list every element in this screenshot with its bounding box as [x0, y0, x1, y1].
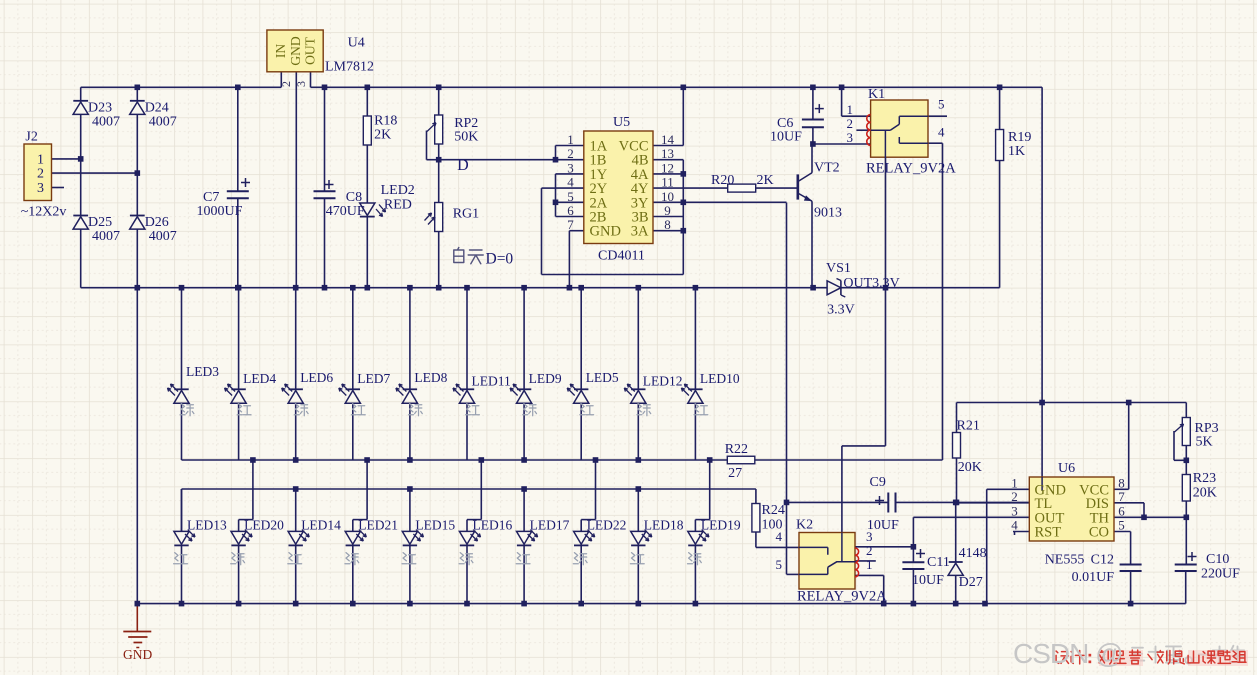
svg-text:LED3: LED3: [186, 364, 219, 379]
svg-text:C10: C10: [1206, 552, 1229, 567]
svg-text:LED17: LED17: [530, 518, 570, 533]
svg-text:CO: CO: [1089, 525, 1109, 541]
svg-text:RELAY_9V2A: RELAY_9V2A: [866, 161, 956, 177]
svg-text:GND: GND: [288, 36, 303, 65]
svg-text:9013: 9013: [814, 206, 842, 221]
svg-text:5: 5: [776, 557, 783, 572]
svg-text:CSDN @: CSDN @: [1013, 638, 1123, 669]
svg-text:50K: 50K: [454, 130, 478, 145]
svg-text:5K: 5K: [1196, 435, 1213, 450]
svg-text:R18: R18: [374, 114, 397, 129]
svg-text:D26: D26: [145, 215, 169, 230]
svg-text:7: 7: [1118, 489, 1125, 504]
svg-text:D: D: [457, 157, 469, 174]
svg-text:1: 1: [37, 152, 44, 167]
svg-text:LED11: LED11: [472, 374, 511, 389]
svg-text:LED18: LED18: [644, 518, 684, 533]
svg-text:LED21: LED21: [358, 518, 398, 533]
svg-text:RED: RED: [384, 197, 412, 212]
svg-text:12: 12: [661, 160, 674, 175]
svg-text:27: 27: [728, 466, 742, 481]
svg-text:LED19: LED19: [701, 518, 741, 533]
svg-text:LED8: LED8: [414, 370, 447, 385]
svg-text:K2: K2: [796, 518, 813, 533]
svg-text:10: 10: [661, 189, 674, 204]
svg-text:CD4011: CD4011: [598, 249, 645, 264]
svg-text:4007: 4007: [149, 114, 177, 129]
svg-text:2: 2: [1011, 489, 1018, 504]
svg-text:D24: D24: [145, 100, 169, 115]
svg-text:4: 4: [938, 125, 945, 140]
svg-text:3: 3: [1011, 503, 1018, 518]
svg-text:2K: 2K: [374, 128, 391, 143]
svg-text:4007: 4007: [92, 229, 120, 244]
svg-text:LED10: LED10: [700, 371, 740, 386]
svg-text:C12: C12: [1091, 553, 1114, 568]
svg-text:2: 2: [866, 543, 873, 558]
svg-text:GND: GND: [123, 647, 152, 662]
svg-text:4: 4: [1011, 518, 1018, 533]
svg-text:D25: D25: [88, 215, 112, 230]
svg-text:R24: R24: [762, 503, 785, 518]
svg-text:LED5: LED5: [586, 370, 619, 385]
svg-text:5: 5: [1118, 518, 1125, 533]
svg-text:LM7812: LM7812: [325, 60, 374, 75]
svg-text:RST: RST: [1035, 525, 1062, 541]
svg-text:9: 9: [664, 203, 671, 218]
svg-text:K1: K1: [868, 87, 885, 102]
svg-text:LED15: LED15: [415, 518, 455, 533]
svg-text:R20: R20: [711, 173, 734, 188]
svg-text:6: 6: [1118, 503, 1125, 518]
svg-text:0.01UF: 0.01UF: [1072, 570, 1115, 585]
svg-text:LED6: LED6: [300, 370, 333, 385]
svg-text:RELAY_9V2A: RELAY_9V2A: [797, 589, 887, 605]
svg-text:1: 1: [567, 132, 574, 147]
svg-text:1: 1: [866, 557, 873, 572]
svg-text:VS1: VS1: [826, 261, 851, 276]
svg-text:2K: 2K: [757, 173, 774, 188]
svg-text:11: 11: [661, 175, 674, 190]
svg-text:OUT3.3V: OUT3.3V: [843, 276, 899, 291]
svg-text:220UF: 220UF: [1201, 567, 1240, 582]
svg-text:2: 2: [567, 146, 574, 161]
svg-text:10UF: 10UF: [770, 130, 802, 145]
svg-text:NE555: NE555: [1045, 553, 1085, 568]
svg-text:LED12: LED12: [643, 374, 683, 389]
svg-text:4: 4: [567, 175, 574, 190]
svg-text:C9: C9: [870, 475, 886, 490]
svg-text:4007: 4007: [149, 229, 177, 244]
svg-text:1: 1: [847, 102, 854, 117]
svg-text:D27: D27: [959, 575, 983, 590]
svg-text:470UF: 470UF: [326, 204, 365, 219]
svg-text:LED4: LED4: [243, 371, 276, 386]
svg-text:20K: 20K: [1193, 486, 1217, 501]
svg-text:LED16: LED16: [473, 518, 513, 533]
svg-text:VT2: VT2: [814, 161, 840, 176]
svg-text:U5: U5: [613, 115, 630, 130]
svg-text:4007: 4007: [92, 114, 120, 129]
svg-text:U4: U4: [348, 36, 365, 51]
svg-text:6: 6: [567, 203, 574, 218]
svg-text:4: 4: [776, 529, 783, 544]
svg-text:8: 8: [664, 217, 671, 232]
svg-text:~12X2v: ~12X2v: [21, 205, 67, 220]
svg-text:10UF: 10UF: [912, 573, 944, 588]
svg-text:4148: 4148: [959, 546, 987, 561]
svg-text:3A: 3A: [631, 224, 649, 240]
svg-text:1K: 1K: [1008, 144, 1025, 159]
svg-text:14: 14: [661, 132, 675, 147]
svg-text:R23: R23: [1193, 471, 1216, 486]
svg-text:3: 3: [567, 160, 574, 175]
svg-text:D=0: D=0: [486, 251, 514, 268]
svg-text:5: 5: [567, 189, 574, 204]
svg-text:OUT: OUT: [303, 36, 318, 64]
svg-text:LED7: LED7: [357, 371, 390, 386]
svg-text:LED14: LED14: [301, 518, 341, 533]
svg-text:1000UF: 1000UF: [197, 204, 243, 219]
svg-text:D23: D23: [88, 100, 112, 115]
svg-text:U6: U6: [1058, 461, 1075, 476]
svg-text:LED2: LED2: [381, 183, 415, 198]
svg-text:3: 3: [847, 130, 854, 145]
svg-text:LED20: LED20: [244, 518, 284, 533]
svg-text:C7: C7: [203, 190, 219, 205]
svg-text:IN: IN: [273, 44, 288, 58]
svg-text:R21: R21: [957, 419, 980, 434]
svg-text:3: 3: [37, 181, 44, 196]
svg-text:20K: 20K: [958, 460, 982, 475]
svg-text:7: 7: [567, 217, 574, 232]
svg-text:C11: C11: [927, 555, 950, 570]
svg-text:10UF: 10UF: [867, 518, 899, 533]
svg-text:RG1: RG1: [453, 207, 479, 222]
svg-text:C8: C8: [346, 190, 362, 205]
svg-text:3: 3: [294, 81, 308, 87]
svg-text:LED9: LED9: [529, 371, 562, 386]
svg-text:GND: GND: [590, 224, 621, 240]
svg-text:J2: J2: [25, 130, 37, 145]
svg-text:R22: R22: [725, 442, 748, 457]
svg-text:5: 5: [938, 97, 945, 112]
svg-text:LED22: LED22: [587, 518, 627, 533]
svg-text:2: 2: [279, 81, 293, 87]
svg-text:R19: R19: [1008, 130, 1031, 145]
svg-text:3.3V: 3.3V: [827, 303, 855, 318]
svg-text:2: 2: [37, 167, 44, 182]
svg-text:LED13: LED13: [187, 518, 227, 533]
svg-text:2: 2: [847, 116, 854, 131]
svg-text:13: 13: [661, 146, 674, 161]
